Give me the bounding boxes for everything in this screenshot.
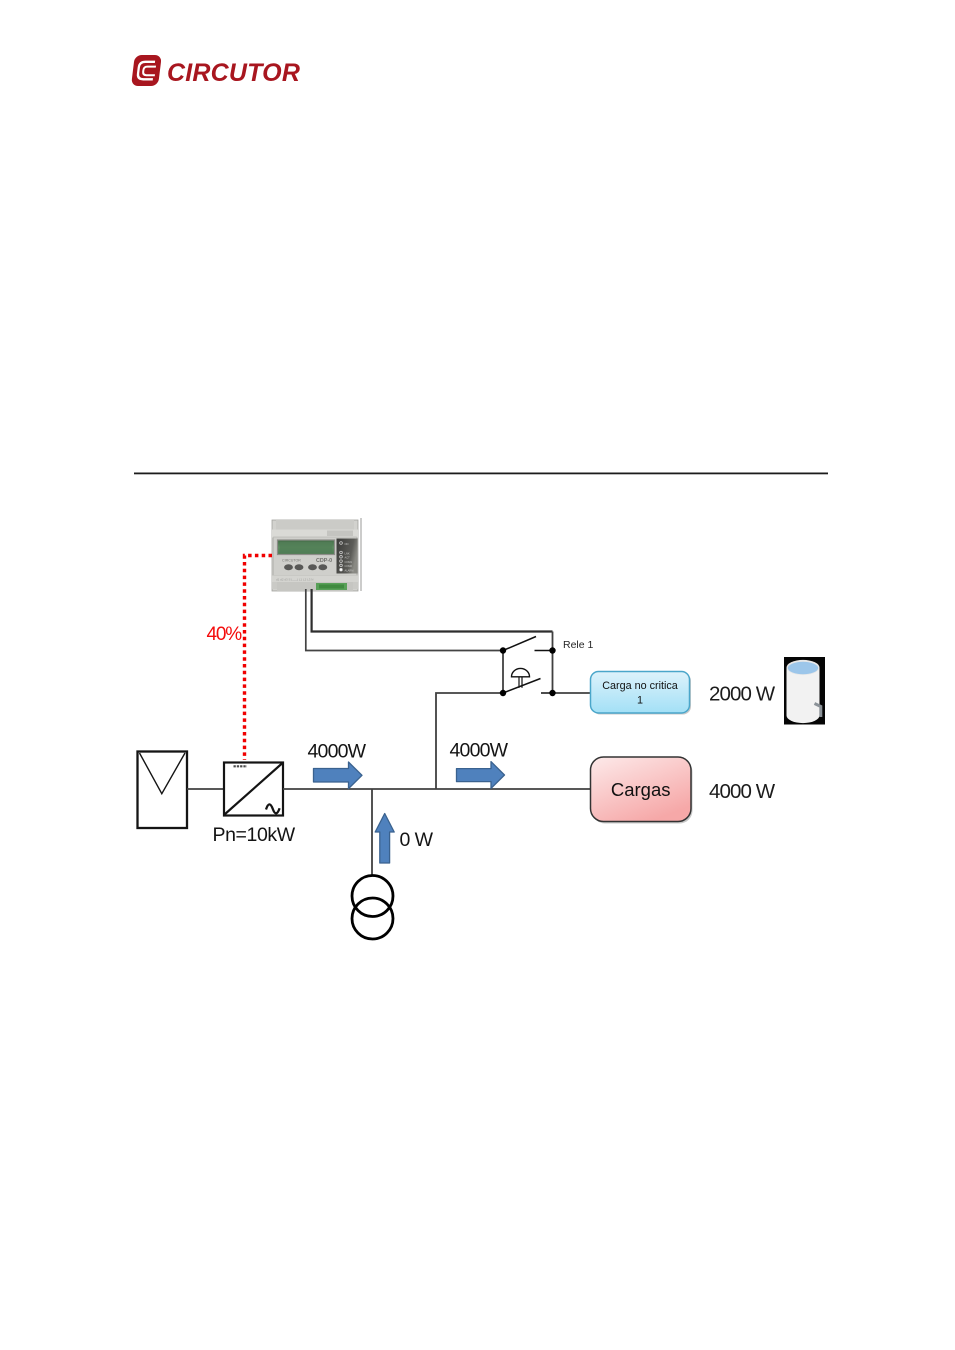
svg-text:Rele 1: Rele 1	[563, 639, 594, 651]
svg-text:CIRCUTOR: CIRCUTOR	[167, 59, 300, 87]
controller CDP-0 photo	[272, 520, 358, 591]
svg-text:4000W: 4000W	[450, 740, 509, 762]
wire CDP output 2 (right)	[312, 589, 553, 632]
wire relay left link	[502, 651, 504, 694]
wire lower contact to load box	[553, 692, 591, 694]
wire PV to inverter	[187, 788, 224, 790]
svg-text:CIRCUTOR: CIRCUTOR	[282, 559, 301, 563]
water heater icon	[784, 657, 825, 725]
svg-text:ACT: ACT	[345, 556, 351, 560]
svg-text:COM2: COM2	[345, 564, 353, 568]
relay contact K1 upper blade	[503, 637, 536, 651]
svg-text:COM1: COM1	[345, 560, 353, 564]
svg-text:4000 W: 4000 W	[709, 780, 776, 803]
wire relay right bus	[552, 632, 554, 694]
node lower left	[500, 690, 506, 696]
svg-text:40%: 40%	[207, 624, 243, 645]
transformer grid circle 2	[352, 898, 393, 939]
svg-text:0 W: 0 W	[400, 829, 434, 851]
svg-text:2000 W: 2000 W	[709, 683, 776, 706]
arrow power flow 1	[314, 762, 363, 789]
svg-text:Cargas: Cargas	[611, 779, 671, 800]
solar panel PV	[138, 752, 188, 829]
node upper right	[549, 647, 555, 653]
svg-text:ALARM: ALARM	[345, 569, 354, 573]
horizontal separator rule	[134, 473, 828, 475]
transformer grid circle 1	[352, 876, 393, 917]
svg-text:ON: ON	[345, 542, 349, 546]
wire to lower contact from bus	[436, 693, 503, 789]
wire to grid transformer	[371, 789, 373, 876]
svg-text:CDP-0: CDP-0	[316, 558, 332, 564]
svg-text:Pn=10kW: Pn=10kW	[213, 824, 296, 846]
box Cargas	[591, 757, 693, 824]
inverter Pn=10kW	[224, 763, 283, 816]
wire CDP output 1 (left)	[306, 589, 503, 651]
node lower right	[549, 690, 555, 696]
svg-text:d1 d2 d3 S |___| L1 L2 L3 N: d1 d2 d3 S |___| L1 L2 L3 N	[276, 578, 313, 582]
svg-text:Carga no critica: Carga no critica	[602, 680, 678, 692]
arrow grid power 0W	[375, 814, 394, 864]
relay actuator symbol	[512, 668, 530, 687]
relay contact K2 lower blade	[503, 679, 541, 694]
box Carga no critica 1	[591, 672, 692, 715]
logo CIRCUTOR icon	[131, 55, 162, 86]
main AC bus wire	[283, 788, 591, 790]
photo edge line	[360, 518, 362, 591]
red dashed setpoint line 40%	[245, 556, 273, 761]
node upper left	[500, 647, 506, 653]
svg-text:1: 1	[637, 695, 643, 707]
svg-text:LNK: LNK	[345, 551, 350, 555]
svg-text:4000W: 4000W	[308, 741, 367, 763]
arrow power flow 2	[457, 762, 505, 789]
